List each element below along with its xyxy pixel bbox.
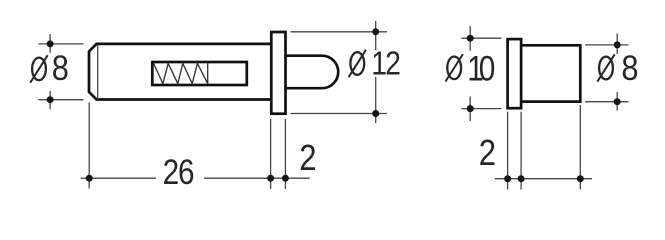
svg-text:8: 8 <box>621 48 638 87</box>
svg-text:6: 6 <box>178 153 195 192</box>
svg-text:0: 0 <box>479 49 496 88</box>
svg-text:2: 2 <box>299 137 316 178</box>
svg-text:2: 2 <box>479 133 496 174</box>
svg-text:2: 2 <box>163 153 180 192</box>
svg-text:8: 8 <box>52 48 69 87</box>
svg-text:2: 2 <box>385 46 401 83</box>
